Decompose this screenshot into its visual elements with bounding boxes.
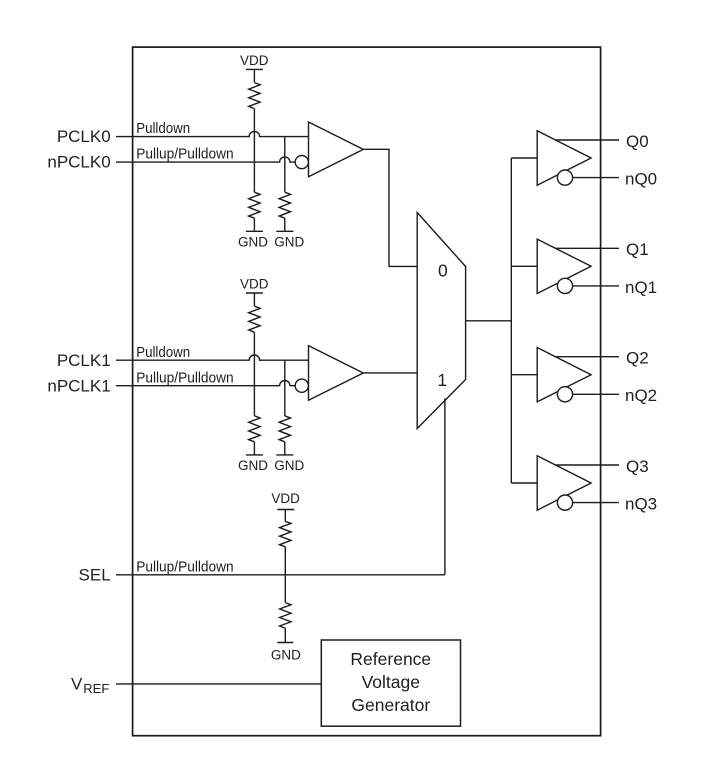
- wire trunk stub to output buffer 2: [511, 374, 537, 376]
- input buffer U1 (differential receiver ch0): [309, 122, 364, 177]
- resistor pulldown of nPCLK1: [249, 416, 260, 442]
- output buffer driver Q0: [537, 131, 591, 185]
- power symbol VDD (input ch0): [240, 53, 269, 70]
- svg-text:GND: GND: [274, 234, 304, 249]
- resistor pullup to VDD (ch0): [249, 69, 260, 108]
- inverting output bubble nQ3: [557, 495, 572, 510]
- wire output nQ1: [573, 285, 619, 287]
- reference voltage generator block: [321, 640, 460, 726]
- svg-text:Pullup/Pulldown: Pullup/Pulldown: [136, 558, 234, 575]
- resistor pulldown of PCLK1: [279, 416, 290, 442]
- wire output Q2: [555, 356, 619, 358]
- inverting input bubble (nPCLK0): [295, 156, 308, 169]
- wire trunk stub to output buffer 1: [511, 265, 537, 267]
- power symbol VDD (SEL): [271, 491, 300, 509]
- svg-text:Q3: Q3: [626, 457, 649, 476]
- wire output distribution trunk: [510, 158, 512, 483]
- output buffer driver Q1: [537, 239, 591, 293]
- wire output nQ2: [573, 393, 619, 395]
- wire SEL input line: [116, 574, 445, 576]
- svg-text:GND: GND: [271, 648, 301, 663]
- svg-text:V: V: [71, 674, 83, 693]
- svg-text:SEL: SEL: [79, 566, 111, 585]
- svg-text:Q2: Q2: [626, 349, 649, 368]
- svg-text:Pulldown: Pulldown: [136, 120, 190, 137]
- wire output Q3: [555, 464, 619, 466]
- wire output Q1: [555, 247, 619, 249]
- wire PCLK0 input line with hop over pullup string: [116, 131, 309, 136]
- wire vertical pullup/pulldown string (ch0): [253, 109, 255, 193]
- wire nPCLK0 input line with hop over pulldown branch: [116, 157, 295, 162]
- svg-text:nQ3: nQ3: [625, 495, 657, 514]
- pin label VREF: [71, 674, 109, 696]
- power symbol VDD (input ch1): [240, 277, 269, 294]
- wire output nQ0: [573, 177, 619, 179]
- svg-text:Q1: Q1: [626, 240, 649, 259]
- svg-text:1: 1: [437, 370, 447, 390]
- svg-text:nQ2: nQ2: [625, 386, 657, 405]
- wire trunk stub to output buffer 0: [511, 157, 537, 159]
- mux M1 (2:1 clock select): [417, 213, 465, 429]
- svg-text:nPCLK0: nPCLK0: [47, 153, 110, 172]
- svg-text:Pulldown: Pulldown: [136, 344, 190, 361]
- svg-text:nPCLK1: nPCLK1: [47, 376, 110, 395]
- wire vertical pullup/pulldown string (ch1): [253, 332, 255, 416]
- wire output Q0: [555, 139, 619, 141]
- svg-text:Q0: Q0: [626, 132, 649, 151]
- wire U2 output to mux input 1: [363, 372, 417, 374]
- inverting output bubble nQ1: [557, 278, 572, 293]
- wire SEL riser to mux select pin: [444, 398, 446, 574]
- svg-text:0: 0: [438, 260, 448, 280]
- wire PCLK1 input line with hop over pullup string: [116, 355, 309, 360]
- ground GND (ch0 right): [274, 218, 304, 249]
- svg-text:REF: REF: [83, 681, 109, 696]
- svg-text:VDD: VDD: [240, 277, 269, 292]
- wire trunk stub to output buffer 3: [511, 482, 537, 484]
- wire nPCLK1 input line with hop over pulldown branch: [116, 381, 295, 386]
- inverting output bubble nQ0: [557, 170, 572, 185]
- wire mux output to distribution trunk: [466, 320, 512, 322]
- svg-text:nQ1: nQ1: [625, 278, 657, 297]
- svg-text:GND: GND: [238, 458, 268, 473]
- svg-text:PCLK0: PCLK0: [57, 127, 111, 146]
- resistor pulldown of SEL: [280, 575, 291, 628]
- svg-text:GND: GND: [274, 458, 304, 473]
- svg-text:Reference: Reference: [350, 649, 431, 669]
- chip boundary box: [133, 47, 601, 736]
- resistor pulldown of PCLK0: [279, 192, 290, 218]
- svg-text:Pullup/Pulldown: Pullup/Pulldown: [136, 369, 234, 386]
- svg-text:Voltage: Voltage: [362, 672, 420, 692]
- wire pulldown branch of PCLK0 (v2): [284, 137, 286, 193]
- inverting input bubble (nPCLK1): [295, 379, 308, 392]
- svg-text:GND: GND: [238, 234, 268, 249]
- svg-text:VDD: VDD: [271, 491, 300, 506]
- wire VREF input line: [116, 683, 321, 685]
- wire SEL pullup lead: [284, 547, 286, 575]
- inverting output bubble nQ2: [557, 387, 572, 402]
- ground GND (ch1 left): [238, 442, 268, 473]
- resistor pulldown of nPCLK0: [249, 192, 260, 218]
- svg-text:nQ0: nQ0: [625, 170, 657, 189]
- svg-text:PCLK1: PCLK1: [57, 351, 111, 370]
- wire U1 output to mux input 0: [363, 149, 417, 266]
- output buffer driver Q2: [537, 348, 591, 402]
- resistor pullup to VDD (ch1): [249, 293, 260, 332]
- ground GND (ch0 left): [238, 218, 268, 249]
- ground GND (SEL): [271, 628, 301, 663]
- wire output nQ3: [573, 502, 619, 504]
- svg-text:Generator: Generator: [351, 695, 430, 715]
- wire pulldown branch of PCLK1 (v2): [284, 360, 286, 416]
- svg-text:VDD: VDD: [240, 53, 269, 68]
- output buffer driver Q3: [537, 456, 591, 510]
- svg-text:Pullup/Pulldown: Pullup/Pulldown: [136, 146, 234, 163]
- ground GND (ch1 right): [274, 442, 304, 473]
- resistor pullup of SEL: [280, 510, 291, 547]
- input buffer U2 (differential receiver ch1): [309, 346, 364, 401]
